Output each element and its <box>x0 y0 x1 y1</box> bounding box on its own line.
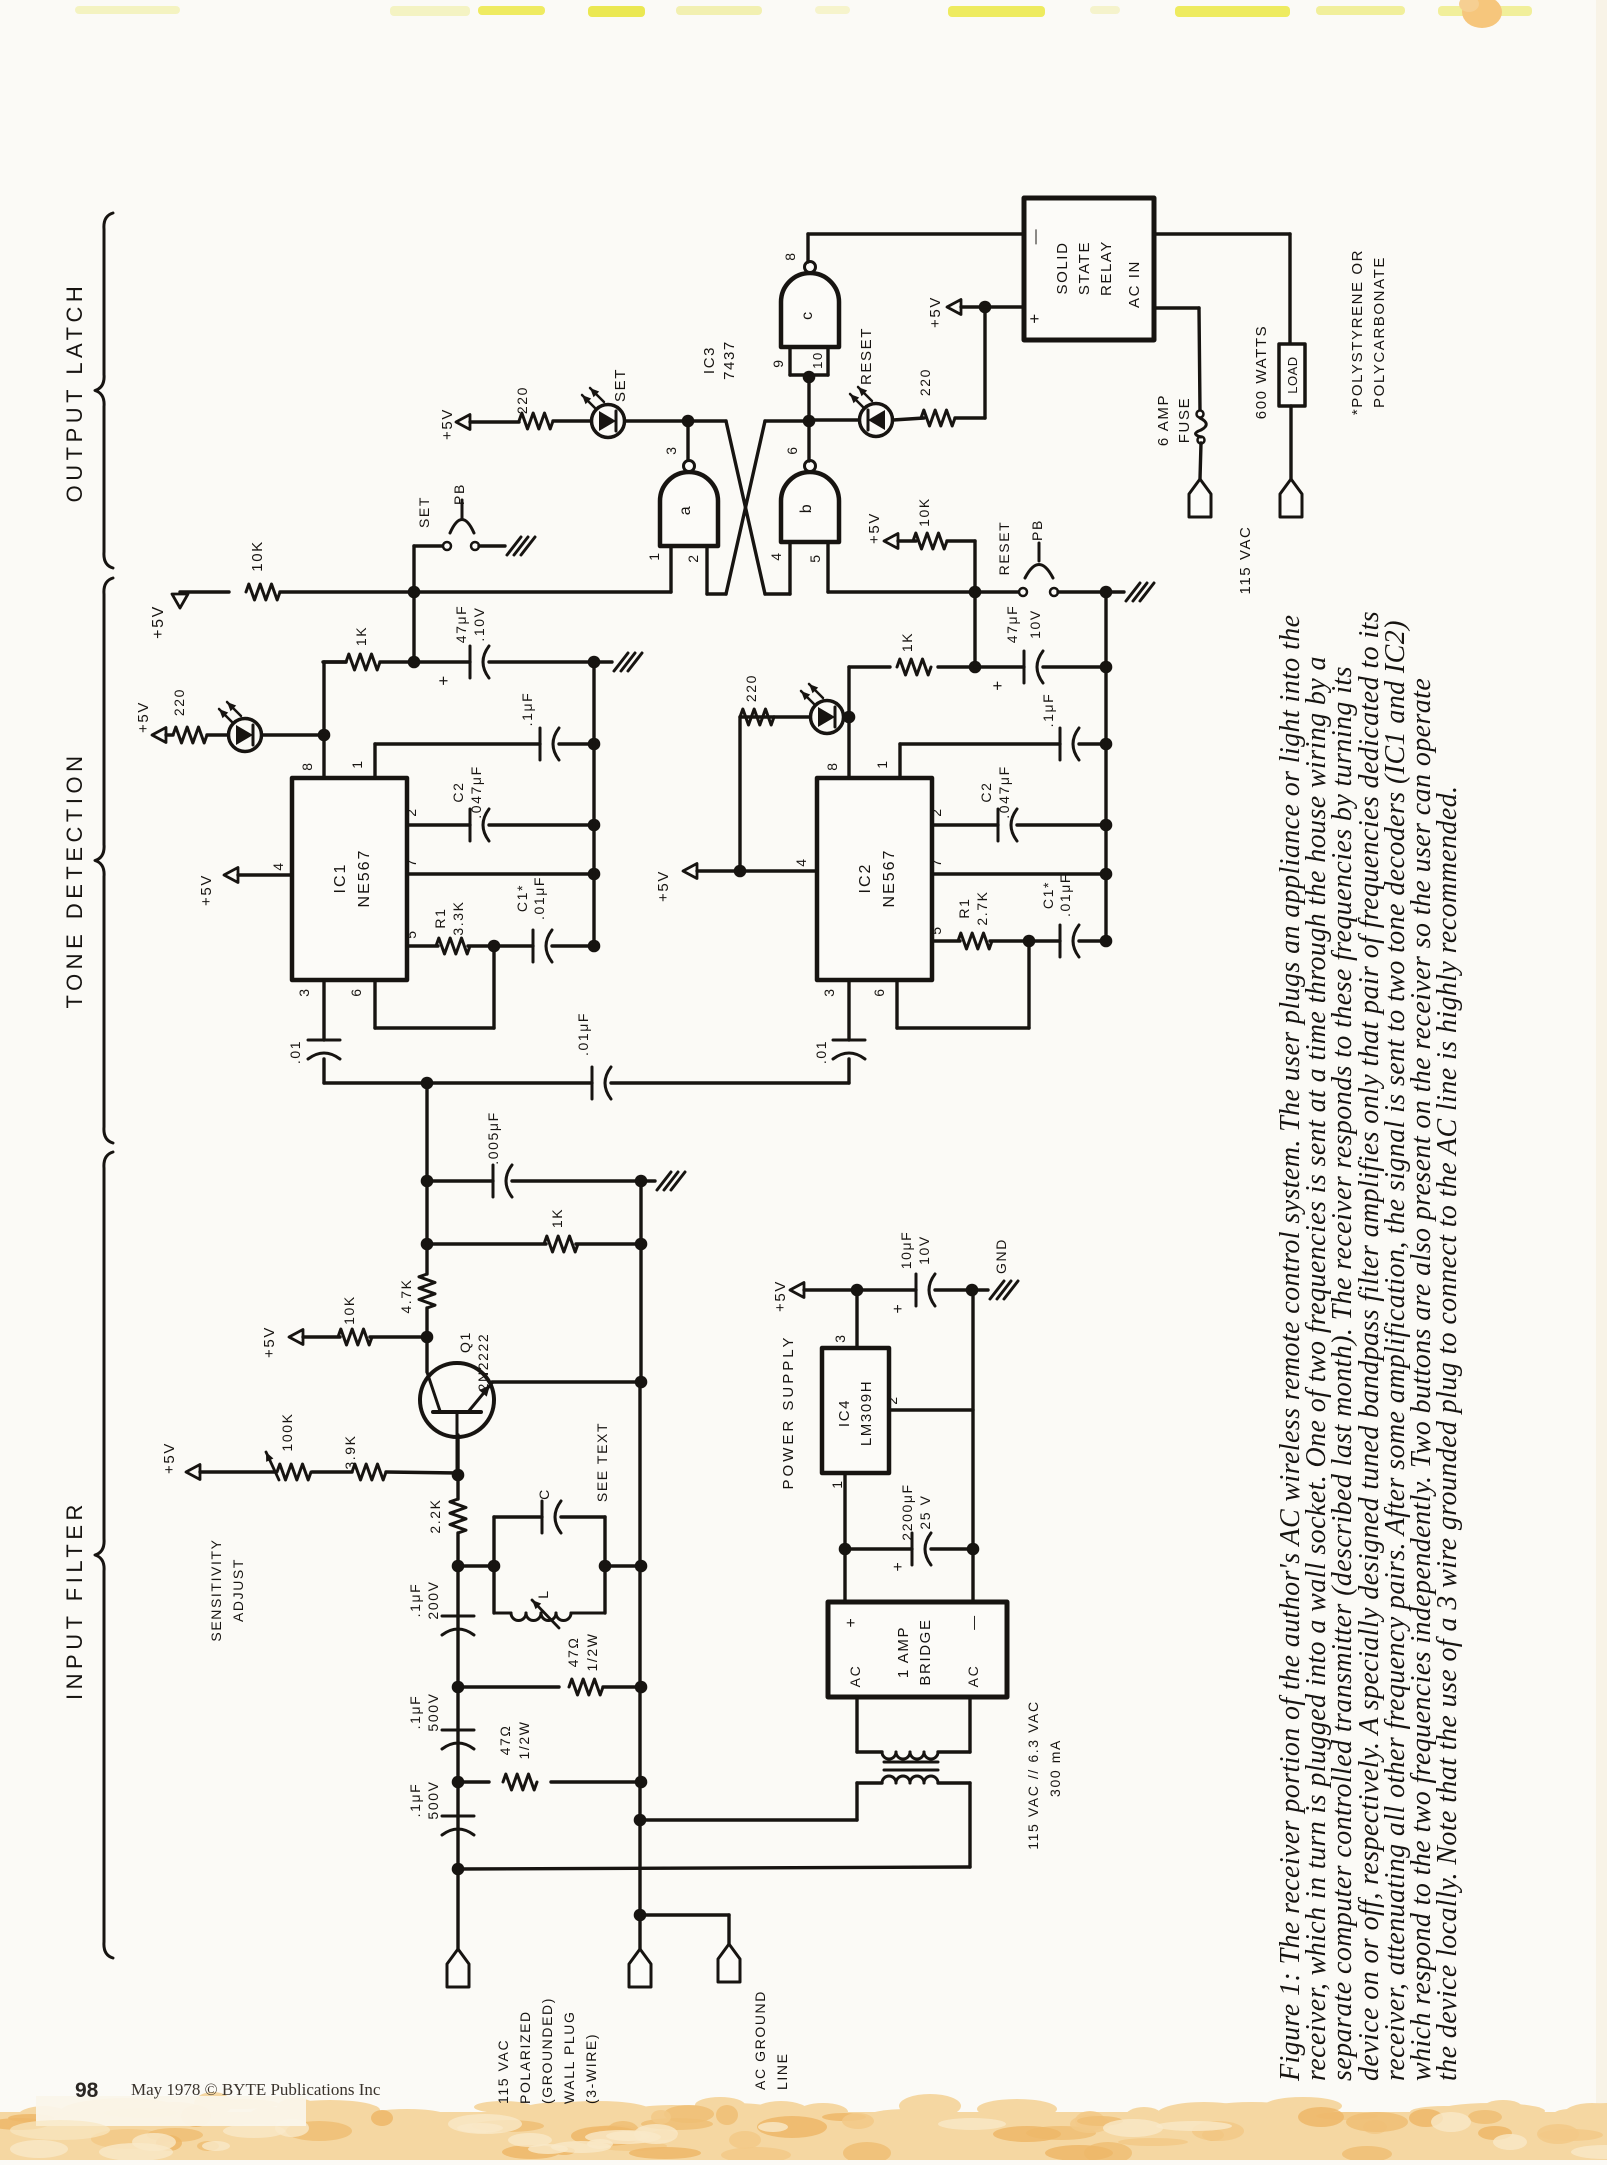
svg-text:PB: PB <box>1029 519 1045 541</box>
svg-text:4.7K: 4.7K <box>398 1278 414 1313</box>
svg-text:3: 3 <box>832 1333 848 1342</box>
svg-text:+5V: +5V <box>655 870 672 902</box>
svg-text:220: 220 <box>514 386 530 414</box>
svg-text:(3-WIRE): (3-WIRE) <box>583 2033 599 2104</box>
svg-text:.01: .01 <box>287 1040 303 1064</box>
svg-text:L: L <box>535 1589 551 1598</box>
svg-text:6: 6 <box>348 987 364 996</box>
svg-text:600 WATTS: 600 WATTS <box>1253 325 1270 419</box>
svg-text:1/2W: 1/2W <box>584 1632 600 1671</box>
svg-text:9: 9 <box>770 358 786 367</box>
svg-text:BRIDGE: BRIDGE <box>917 1618 934 1685</box>
svg-text:.01μF: .01μF <box>1057 873 1073 917</box>
svg-text:10: 10 <box>810 351 825 369</box>
svg-text:.10V: .10V <box>471 606 487 641</box>
svg-text:10V: 10V <box>916 1235 932 1265</box>
svg-text:OUTPUT LATCH: OUTPUT LATCH <box>62 282 87 503</box>
svg-text:10K: 10K <box>341 1295 357 1325</box>
svg-text:300 mA: 300 mA <box>1047 1739 1063 1797</box>
svg-text:SEE TEXT: SEE TEXT <box>594 1422 610 1502</box>
svg-text:POLYCARBONATE: POLYCARBONATE <box>1371 256 1388 408</box>
svg-text:1: 1 <box>646 551 662 560</box>
svg-text:AC GROUND: AC GROUND <box>752 1990 768 2090</box>
svg-text:+5V: +5V <box>150 605 167 639</box>
svg-text:1 AMP: 1 AMP <box>895 1626 912 1678</box>
svg-text:—: — <box>1027 228 1044 245</box>
svg-text:C1*: C1* <box>1040 881 1056 909</box>
svg-text:.01μF: .01μF <box>531 876 547 920</box>
svg-text:.005μF: .005μF <box>485 1111 501 1164</box>
svg-text:C2: C2 <box>978 781 994 802</box>
svg-text:220: 220 <box>743 674 759 702</box>
svg-text:47μF: 47μF <box>453 605 469 644</box>
svg-text:115 VAC: 115 VAC <box>495 2039 511 2104</box>
svg-text:R1: R1 <box>432 907 448 928</box>
svg-text:+5V: +5V <box>135 701 152 733</box>
svg-text:Q1: Q1 <box>457 1331 473 1353</box>
svg-text:1/2W: 1/2W <box>516 1720 532 1759</box>
svg-text:RESET: RESET <box>858 327 875 385</box>
svg-text:47Ω: 47Ω <box>565 1637 581 1668</box>
svg-text:5: 5 <box>928 925 944 934</box>
svg-text:1K: 1K <box>899 632 915 652</box>
svg-text:100K: 100K <box>279 1412 295 1451</box>
svg-text:PB: PB <box>451 483 467 505</box>
svg-text:2: 2 <box>928 807 944 816</box>
svg-text:8: 8 <box>299 761 315 770</box>
svg-text:5: 5 <box>403 929 419 938</box>
svg-text:10V: 10V <box>1027 609 1043 639</box>
svg-text:98: 98 <box>75 2079 99 2102</box>
svg-text:AC: AC <box>847 1665 863 1688</box>
svg-text:2: 2 <box>685 553 701 562</box>
svg-text:the device locally. Note that: the device locally. Note that the use of… <box>1432 786 1463 2081</box>
svg-text:R1: R1 <box>956 897 972 918</box>
svg-text:LINE: LINE <box>774 2052 790 2090</box>
svg-text:POLARIZED: POLARIZED <box>517 2010 533 2104</box>
svg-text:.1μF: .1μF <box>407 1783 423 1818</box>
svg-text:SOLID: SOLID <box>1054 241 1071 294</box>
svg-text:2.7K: 2.7K <box>974 890 990 925</box>
svg-text:3.3K: 3.3K <box>450 900 466 935</box>
svg-text:POWER SUPPLY: POWER SUPPLY <box>780 1335 797 1490</box>
svg-text:10K: 10K <box>916 497 932 527</box>
svg-text:6: 6 <box>871 987 887 996</box>
svg-text:IC2: IC2 <box>857 863 874 894</box>
svg-text:+: + <box>1025 312 1044 324</box>
svg-text:.1μF: .1μF <box>1040 693 1056 728</box>
svg-text:.047μF: .047μF <box>468 765 484 818</box>
svg-text:a: a <box>677 505 694 516</box>
svg-text:GND: GND <box>993 1238 1009 1274</box>
svg-text:4: 4 <box>768 551 784 560</box>
svg-text:.047μF: .047μF <box>996 765 1012 818</box>
svg-text:7437: 7437 <box>721 340 738 380</box>
svg-text:+5V: +5V <box>866 512 883 544</box>
svg-text:*POLYSTYRENE OR: *POLYSTYRENE OR <box>1349 249 1366 415</box>
svg-text:STATE: STATE <box>1076 241 1093 295</box>
svg-text:1: 1 <box>829 1479 845 1488</box>
svg-text:.01: .01 <box>813 1040 829 1064</box>
svg-text:2: 2 <box>884 1395 900 1404</box>
svg-text:SET: SET <box>416 496 432 528</box>
svg-text:SENSITIVITY: SENSITIVITY <box>208 1538 224 1641</box>
svg-text:+5V: +5V <box>161 1442 178 1474</box>
svg-text:RELAY: RELAY <box>1098 240 1115 296</box>
svg-text:.1μF: .1μF <box>407 1583 423 1618</box>
svg-text:4: 4 <box>793 857 809 866</box>
svg-text:+5V: +5V <box>198 874 215 906</box>
svg-text:+: + <box>890 1303 907 1314</box>
svg-text:8: 8 <box>824 761 840 770</box>
svg-text:2N2222: 2N2222 <box>475 1333 491 1392</box>
svg-text:3.9K: 3.9K <box>342 1434 358 1469</box>
svg-text:AC IN: AC IN <box>1126 260 1143 308</box>
svg-text:2: 2 <box>403 807 419 816</box>
svg-text:SET: SET <box>612 368 629 402</box>
svg-text:IC3: IC3 <box>701 346 718 374</box>
svg-text:INPUT FILTER: INPUT FILTER <box>62 1500 87 1700</box>
svg-text:2.2K: 2.2K <box>427 1498 443 1533</box>
svg-text:WALL PLUG: WALL PLUG <box>561 2011 577 2105</box>
svg-text:115 VAC // 6.3 VAC: 115 VAC // 6.3 VAC <box>1025 1700 1041 1849</box>
svg-text:25 V: 25 V <box>917 1494 933 1529</box>
svg-text:7: 7 <box>403 857 419 866</box>
svg-text:1: 1 <box>874 759 890 768</box>
svg-text:3: 3 <box>296 987 312 996</box>
svg-text:47Ω: 47Ω <box>497 1725 513 1756</box>
svg-text:8: 8 <box>782 251 798 260</box>
svg-text:5: 5 <box>807 553 823 562</box>
svg-text:.01μF: .01μF <box>575 1012 591 1056</box>
svg-text:+5V: +5V <box>261 1326 278 1358</box>
svg-text:+: + <box>988 679 1007 691</box>
svg-text:3: 3 <box>663 445 679 454</box>
svg-text:AC: AC <box>965 1665 981 1688</box>
svg-text:+: + <box>890 1561 907 1572</box>
svg-text:500V: 500V <box>425 1780 441 1819</box>
svg-text:500V: 500V <box>425 1692 441 1731</box>
svg-text:May 1978 © BYTE Publications I: May 1978 © BYTE Publications Inc <box>131 2080 381 2099</box>
svg-text:47μF: 47μF <box>1004 605 1020 644</box>
svg-text:115 VAC: 115 VAC <box>1237 525 1254 594</box>
svg-text:220: 220 <box>917 368 933 396</box>
svg-text:1K: 1K <box>549 1208 565 1228</box>
svg-text:c: c <box>799 310 816 320</box>
svg-text:10μF: 10μF <box>898 1231 914 1270</box>
svg-text:NE567: NE567 <box>881 849 898 908</box>
svg-text:+5V: +5V <box>772 1280 789 1312</box>
svg-text:FUSE: FUSE <box>1176 397 1193 443</box>
svg-text:RESET: RESET <box>996 521 1012 576</box>
svg-text:2200μF: 2200μF <box>899 1483 915 1540</box>
svg-text:10K: 10K <box>249 540 266 572</box>
svg-text:C1*: C1* <box>514 884 530 912</box>
svg-text:IC4: IC4 <box>836 1399 853 1427</box>
svg-text:+: + <box>434 674 453 686</box>
svg-text:4: 4 <box>270 861 286 870</box>
svg-text:.1μF: .1μF <box>407 1695 423 1730</box>
svg-text:(GROUNDED): (GROUNDED) <box>539 1997 555 2104</box>
svg-text:NE567: NE567 <box>356 849 373 908</box>
svg-text:7: 7 <box>928 857 944 866</box>
svg-text:+: + <box>843 1617 860 1628</box>
svg-text:b: b <box>798 503 815 514</box>
svg-text:IC1: IC1 <box>332 863 349 894</box>
svg-text:TONE DETECTION: TONE DETECTION <box>62 752 87 1009</box>
svg-text:C: C <box>536 1488 552 1500</box>
svg-text:+5V: +5V <box>439 408 456 440</box>
svg-text:6: 6 <box>784 445 800 454</box>
svg-text:1: 1 <box>349 759 365 768</box>
svg-text:.1μF: .1μF <box>519 692 535 727</box>
svg-text:—: — <box>965 1614 981 1630</box>
svg-text:LOAD: LOAD <box>1285 356 1300 393</box>
svg-text:LM309H: LM309H <box>858 1380 875 1446</box>
svg-text:+5V: +5V <box>927 296 944 328</box>
svg-text:220: 220 <box>171 688 187 716</box>
svg-text:1K: 1K <box>353 626 369 646</box>
svg-text:C2: C2 <box>450 781 466 802</box>
svg-text:ADJUST: ADJUST <box>230 1558 246 1622</box>
svg-text:200V: 200V <box>425 1580 441 1619</box>
svg-text:6 AMP: 6 AMP <box>1155 394 1172 446</box>
svg-text:3: 3 <box>821 987 837 996</box>
